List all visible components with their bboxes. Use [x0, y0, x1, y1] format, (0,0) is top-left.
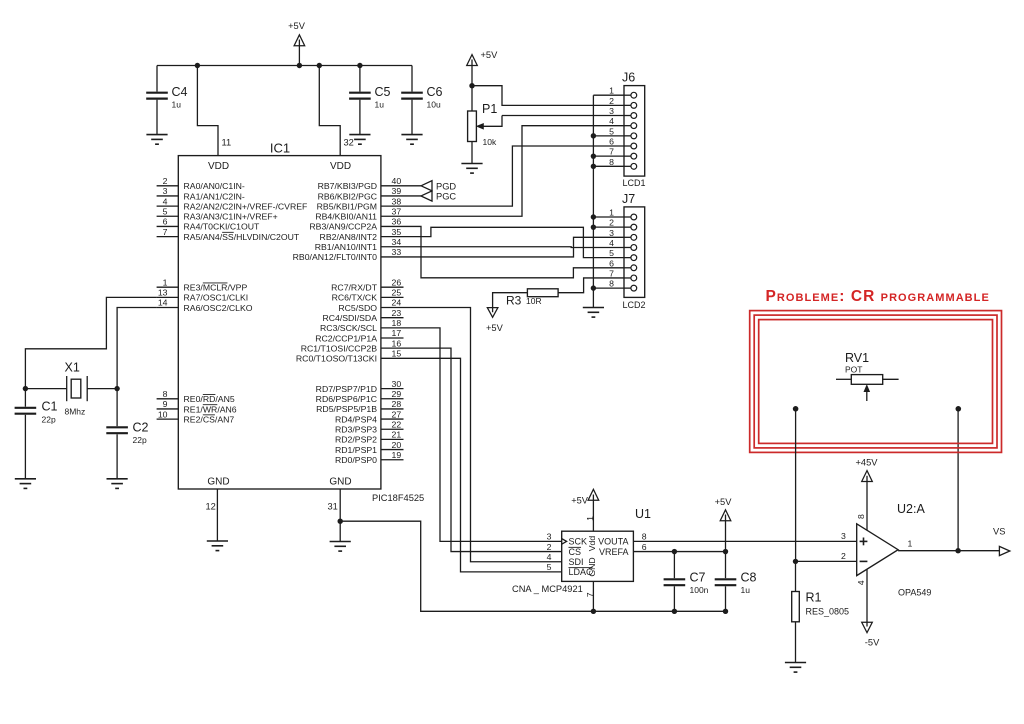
svg-text:2: 2 — [547, 542, 552, 552]
svg-text:VDD: VDD — [330, 161, 351, 172]
svg-text:RA3/AN3/C1IN+/VREF+: RA3/AN3/C1IN+/VREF+ — [184, 212, 278, 222]
svg-text:33: 33 — [392, 247, 402, 257]
svg-text:3: 3 — [547, 532, 552, 542]
svg-text:C1: C1 — [42, 400, 58, 414]
svg-text:PGC: PGC — [436, 192, 456, 202]
svg-text:16: 16 — [392, 338, 402, 348]
svg-text:22p: 22p — [133, 435, 147, 445]
wire U1 VOUTA to U2 plus input — [633, 540, 856, 542]
U2 negative supply pin 4 — [866, 569, 868, 626]
svg-text:U2:A: U2:A — [897, 502, 925, 516]
svg-text:5: 5 — [547, 562, 552, 572]
svg-text:Vdd: Vdd — [587, 536, 597, 552]
wire IC1 pin 12 GND — [216, 489, 218, 541]
IC1 pin 9 RE1/WR/AN6 stub — [157, 408, 179, 410]
power +5V flag above C8 — [720, 510, 731, 521]
svg-text:PIC18F4525: PIC18F4525 — [372, 493, 424, 503]
junction RV1 left wire — [793, 406, 799, 412]
svg-text:R3: R3 — [506, 294, 522, 308]
RV1 wiper arrow — [866, 390, 868, 401]
svg-text:RD5/PSP5/P1B: RD5/PSP5/P1B — [316, 404, 377, 414]
wire IC1 pin 18 RC3/SCK to U1 SCK — [404, 328, 562, 542]
svg-text:8: 8 — [609, 157, 614, 167]
wire IC1 pin 38 RB5 to J6 pin 6 — [404, 146, 625, 206]
junction IC1 pin31 — [338, 519, 343, 524]
svg-text:RE1/WR/AN6: RE1/WR/AN6 — [184, 404, 237, 414]
IC1 pin 35 RB2/AN8/INT2 stub — [381, 236, 404, 238]
IC1 pin 24 RC5/SDO stub — [381, 307, 404, 309]
P1 wiper arrow — [478, 116, 502, 127]
svg-text:RV1: RV1 — [845, 351, 869, 365]
wire IC1 pin 24 RC5/SDO to U1 SDI — [404, 308, 562, 562]
svg-text:RB6/KBI2/PGC: RB6/KBI2/PGC — [318, 191, 377, 201]
svg-text:RB7/KBI3/PGD: RB7/KBI3/PGD — [318, 181, 377, 191]
svg-text:4: 4 — [547, 552, 552, 562]
connector J7 pin 3 — [624, 236, 631, 238]
svg-text:1u: 1u — [172, 100, 182, 110]
IC1 pin 14 RA6/OSC2/CLKO stub — [157, 307, 179, 309]
IC1 pin 2 RA0/AN0/C1IN- stub — [157, 185, 179, 187]
svg-text:LCD1: LCD1 — [623, 178, 646, 188]
svg-text:2: 2 — [841, 551, 846, 561]
svg-text:40: 40 — [392, 176, 402, 186]
connector J6 pin 2 — [624, 104, 631, 106]
svg-text:8: 8 — [642, 532, 647, 542]
IC1 pin 30 RD7/PSP7/P1D stub — [381, 388, 404, 390]
IC1 pin 10 RE2/CS/AN7 stub — [157, 418, 179, 420]
svg-text:1: 1 — [908, 539, 913, 549]
junction VREFA C7 — [672, 549, 677, 554]
wire IC1 pin 36 RB3 to J7 pin 6 — [404, 226, 625, 277]
svg-text:11: 11 — [222, 138, 232, 148]
wire RV1 left to R1/minus junction — [795, 409, 797, 562]
svg-text:RA7/OSC1/CLKI: RA7/OSC1/CLKI — [184, 293, 249, 303]
svg-text:10u: 10u — [427, 100, 441, 110]
svg-text:RD1/PSP1: RD1/PSP1 — [335, 445, 377, 455]
svg-text:PGD: PGD — [436, 181, 456, 191]
connector J7 pin 2 — [624, 226, 631, 228]
junction crystal left — [23, 386, 28, 391]
svg-text:8: 8 — [609, 279, 614, 289]
ground under R1 — [785, 663, 806, 673]
junction U1 pin7 on ground rail — [591, 609, 596, 614]
svg-text:24: 24 — [392, 298, 402, 308]
wire R3 right to J7 pin 7 — [558, 278, 624, 293]
svg-text:RC5/SDO: RC5/SDO — [338, 303, 377, 313]
svg-text:14: 14 — [158, 298, 168, 308]
ground under IC1 pin 31 — [330, 542, 351, 552]
svg-text:+5V: +5V — [481, 50, 499, 60]
svg-text:2: 2 — [609, 96, 614, 106]
svg-text:RD2/PSP2: RD2/PSP2 — [335, 435, 377, 445]
power +5V top rail flag — [298, 40, 300, 66]
svg-text:RB2/AN8/INT2: RB2/AN8/INT2 — [320, 232, 378, 242]
IC1 pin 15 RC0/T1OSO/T13CKI stub — [381, 357, 404, 359]
U2 minus sign — [860, 560, 868, 562]
capacitor C8 — [725, 552, 727, 579]
IC1 pin 23 RC4/SDI/SDA stub — [381, 317, 404, 319]
svg-text:12: 12 — [206, 502, 216, 512]
svg-text:1: 1 — [609, 86, 614, 96]
U2 positive supply pin 8 — [866, 476, 868, 531]
svg-text:-5V: -5V — [865, 638, 880, 648]
junction bus J6 pin5 — [591, 133, 596, 138]
IC1 pin 33 RB0/AN12/FLT0/INT0 stub — [381, 256, 404, 258]
svg-text:C7: C7 — [690, 571, 706, 585]
IC1 pin 22 RD3/PSP3 stub — [381, 428, 404, 430]
junction bus J7 pin8 — [591, 285, 596, 290]
svg-text:10: 10 — [158, 409, 168, 419]
connector J7 pin 6 — [624, 267, 631, 269]
svg-text:C5: C5 — [375, 85, 391, 99]
svg-text:C4: C4 — [172, 85, 188, 99]
svg-text:7: 7 — [609, 147, 614, 157]
svg-text:34: 34 — [392, 237, 402, 247]
wire J7 pin8 to bus — [593, 287, 624, 289]
svg-text:29: 29 — [392, 389, 402, 399]
svg-text:36: 36 — [392, 217, 402, 227]
IC1 pin 7 RA5/AN4/SS/HLVDIN/C2OUT stub — [157, 236, 179, 238]
svg-text:18: 18 — [392, 318, 402, 328]
crystal X1 — [25, 388, 66, 390]
terminal flag PGD — [421, 181, 432, 191]
svg-text:2: 2 — [163, 176, 168, 186]
svg-text:7: 7 — [609, 268, 614, 278]
IC U1 MCP4921 body — [562, 531, 634, 581]
connector J6 body — [624, 86, 645, 177]
wire rail to IC1 pin 11 — [197, 66, 218, 156]
connector J7 pin 5 — [624, 257, 631, 259]
svg-text:RD0/PSP0: RD0/PSP0 — [335, 455, 377, 465]
svg-text:RD6/PSP6/P1C: RD6/PSP6/P1C — [316, 394, 377, 404]
svg-text:RB4/KBI0/AN11: RB4/KBI0/AN11 — [315, 212, 377, 222]
svg-text:RE0/RD/AN5: RE0/RD/AN5 — [184, 394, 235, 404]
IC1 pin 28 RD5/PSP5/P1B stub — [381, 408, 404, 410]
terminal flag VS — [999, 546, 1009, 555]
svg-text:19: 19 — [392, 450, 402, 460]
svg-text:3: 3 — [841, 531, 846, 541]
svg-text:4: 4 — [609, 238, 614, 248]
svg-text:1: 1 — [609, 208, 614, 218]
junction C7 on ground rail — [672, 609, 677, 614]
svg-text:27: 27 — [392, 409, 402, 419]
svg-text:C8: C8 — [741, 571, 757, 585]
junction output feedback — [955, 548, 960, 553]
svg-text:22p: 22p — [42, 415, 56, 425]
svg-text:C2: C2 — [133, 421, 149, 435]
connector J6 pin 3 — [624, 115, 631, 117]
svg-text:37: 37 — [392, 206, 402, 216]
IC1 pin 20 RD1/PSP1 stub — [381, 449, 404, 451]
power +5V flag above U1 — [588, 489, 599, 500]
junction top rail at +5V flag — [297, 63, 302, 68]
IC1 pin 38 RB5/KBI1/PGM stub — [381, 205, 404, 207]
wire J7 pin1 to bus — [593, 216, 624, 218]
svg-text:+5V: +5V — [288, 21, 306, 31]
svg-text:RC2/CCP1/P1A: RC2/CCP1/P1A — [315, 333, 377, 343]
svg-text:22: 22 — [392, 419, 402, 429]
svg-text:RD7/PSP7/P1D: RD7/PSP7/P1D — [316, 384, 377, 394]
potentiometer RV1 body — [851, 375, 882, 385]
svg-text:21: 21 — [392, 430, 402, 440]
ground under J7 bus — [583, 308, 604, 318]
connector J6 pin 7 — [624, 155, 631, 157]
svg-text:RC4/SDI/SDA: RC4/SDI/SDA — [322, 313, 377, 323]
connector J7 pin 1 — [624, 216, 631, 218]
wire IC1 pin 39 to PGC flag — [404, 195, 422, 197]
ground under P1 — [461, 164, 482, 174]
junction C8 on ground rail — [723, 609, 728, 614]
IC1 pin 18 RC3/SCK/SCL stub — [381, 327, 404, 329]
svg-text:7: 7 — [163, 227, 168, 237]
svg-text:GND: GND — [329, 477, 351, 488]
svg-text:4: 4 — [609, 116, 614, 126]
wire J7 pin2 to bus — [593, 226, 624, 228]
IC1 pin 17 RC2/CCP1/P1A stub — [381, 337, 404, 339]
connector J6 pin 1 — [624, 94, 631, 96]
svg-text:RA4/T0CKI/C1OUT: RA4/T0CKI/C1OUT — [184, 222, 260, 232]
capacitor C4 — [156, 66, 158, 92]
capacitor C2 — [116, 389, 118, 427]
svg-text:2: 2 — [609, 218, 614, 228]
connector J6 pin 6 — [624, 145, 631, 147]
svg-text:20: 20 — [392, 440, 402, 450]
wire P1 bottom to ground — [471, 142, 473, 164]
junction bus J7 pin2 — [591, 224, 596, 229]
svg-text:RC1/T1OSI/CCP2B: RC1/T1OSI/CCP2B — [301, 343, 377, 353]
svg-text:LCD2: LCD2 — [623, 300, 646, 310]
IC1 pin 16 RC1/T1OSI/CCP2B stub — [381, 347, 404, 349]
wire R1 junction to U2 minus input — [796, 560, 857, 562]
ground under C4 — [146, 135, 167, 145]
wire J6 pin8 to bus — [593, 165, 624, 167]
svg-text:RC7/RX/DT: RC7/RX/DT — [331, 283, 378, 293]
svg-text:P1: P1 — [482, 102, 497, 116]
svg-text:28: 28 — [392, 399, 402, 409]
svg-text:RB5/KBI1/PGM: RB5/KBI1/PGM — [317, 201, 377, 211]
IC1 pin 4 RA2/AN2/C2IN+/VREF-/CVREF stub — [157, 205, 179, 207]
wire rail to IC1 pin 32 — [319, 66, 340, 156]
wire IC1 pin 37 RB4 to J6 pin 4 — [404, 126, 625, 217]
svg-text:VDD: VDD — [208, 161, 229, 172]
svg-text:15: 15 — [392, 349, 402, 359]
junction top rail at C5 — [357, 63, 362, 68]
ground under C1 — [15, 479, 36, 489]
svg-text:RES_0805: RES_0805 — [806, 607, 850, 617]
wire U2 output — [898, 550, 1000, 552]
wire ground bus J6/J7 — [593, 94, 624, 96]
wire R3 left to +5V flag — [493, 293, 528, 313]
svg-text:RB3/AN9/CCP2A: RB3/AN9/CCP2A — [309, 222, 377, 232]
svg-text:23: 23 — [392, 308, 402, 318]
svg-text:RC6/TX/CK: RC6/TX/CK — [332, 293, 378, 303]
svg-text:31: 31 — [328, 502, 338, 512]
svg-text:32: 32 — [344, 138, 354, 148]
IC1 pin 3 RA1/AN1/C2IN- stub — [157, 195, 179, 197]
IC1 pin 1 RE3/MCLR/VPP stub — [157, 286, 179, 288]
svg-text:25: 25 — [392, 288, 402, 298]
svg-text:1: 1 — [163, 277, 168, 287]
svg-text:10R: 10R — [526, 296, 542, 306]
svg-text:VOUTA: VOUTA — [598, 537, 628, 547]
wire P1 top to J6 pin 2 — [472, 86, 624, 106]
svg-text:1u: 1u — [741, 585, 751, 595]
power +45V flag — [862, 471, 873, 482]
svg-text:6: 6 — [609, 137, 614, 147]
svg-text:RE2/CS/AN7: RE2/CS/AN7 — [184, 414, 235, 424]
IC1 pin 37 RB4/KBI0/AN11 stub — [381, 215, 404, 217]
junction VREFA +5V/C8 — [723, 549, 728, 554]
svg-text:3: 3 — [609, 228, 614, 238]
capacitor C1 — [24, 389, 26, 407]
ground under IC1 pin 12 — [207, 541, 228, 551]
wire output to RV1 box right dot — [957, 409, 959, 551]
svg-text:30: 30 — [392, 379, 402, 389]
svg-text:+45V: +45V — [856, 458, 879, 468]
svg-text:C6: C6 — [427, 85, 443, 99]
svg-text:RA5/AN4/SS/HLVDIN/C2OUT: RA5/AN4/SS/HLVDIN/C2OUT — [184, 232, 300, 242]
svg-text:CNA _ MCP4921: CNA _ MCP4921 — [512, 584, 583, 594]
wire IC1 pin 13 OSC1 to crystal left — [25, 297, 156, 388]
junction RV1 right wire — [956, 406, 962, 412]
wire U1 GND pin7 to rail — [592, 581, 594, 611]
svg-text:RA0/AN0/C1IN-: RA0/AN0/C1IN- — [184, 181, 245, 191]
connector J7 pin 4 — [624, 246, 631, 248]
svg-text:13: 13 — [158, 288, 168, 298]
wire J6 pin7 to bus — [593, 155, 624, 157]
svg-text:5: 5 — [609, 126, 614, 136]
connector J7 pin 8 — [624, 287, 631, 289]
svg-text:CS: CS — [569, 547, 582, 557]
junction crystal right — [114, 386, 119, 391]
svg-text:U1: U1 — [635, 507, 651, 521]
svg-text:J6: J6 — [622, 71, 635, 85]
svg-text:GND: GND — [587, 557, 597, 576]
svg-text:17: 17 — [392, 328, 402, 338]
op-amp U2:A triangle — [857, 524, 898, 576]
ground under C2 — [107, 479, 128, 489]
connector J7 body — [624, 207, 645, 298]
svg-text:RD3/PSP3: RD3/PSP3 — [335, 425, 377, 435]
connector J6 pin 4 — [624, 125, 631, 127]
IC1 pin 39 RB6/KBI2/PGC stub — [381, 195, 404, 197]
svg-text:4: 4 — [163, 196, 168, 206]
IC1 pin 34 RB1/AN10/INT1 stub — [381, 246, 404, 248]
svg-text:8: 8 — [163, 389, 168, 399]
terminal flag PGC — [421, 191, 432, 201]
junction bus J6 pin8 — [591, 164, 596, 169]
svg-text:SDI: SDI — [569, 557, 584, 567]
svg-text:100n: 100n — [690, 585, 709, 595]
svg-text:RB0/AN12/FLT0/INT0: RB0/AN12/FLT0/INT0 — [293, 252, 377, 262]
IC1 pin 27 RD4/PSP4 stub — [381, 418, 404, 420]
power -5V down flag — [862, 622, 873, 632]
junction P1 top branch — [469, 83, 474, 88]
wire IC1 pin 16 RC1 to U1 CS — [404, 348, 562, 551]
capacitor C5 — [359, 66, 361, 92]
IC1 pin 40 RB7/KBI3/PGD stub — [381, 185, 404, 187]
resistor R1 body — [795, 561, 797, 591]
svg-text:IC1: IC1 — [270, 141, 290, 156]
svg-text:VS: VS — [993, 527, 1005, 537]
svg-text:POT: POT — [845, 365, 862, 375]
wire ground rail to DAC area — [340, 521, 725, 611]
wire IC1 pin 31 GND — [339, 489, 341, 542]
svg-text:RB1/AN10/INT1: RB1/AN10/INT1 — [315, 242, 377, 252]
connector J6 pin 8 — [624, 165, 631, 167]
svg-text:5: 5 — [609, 248, 614, 258]
IC1 pin 25 RC6/TX/CK stub — [381, 296, 404, 298]
svg-text:+5V: +5V — [571, 496, 589, 506]
resistor R3 body — [527, 289, 558, 297]
svg-text:26: 26 — [392, 277, 402, 287]
IC1 pin 19 RD0/PSP0 stub — [381, 459, 404, 461]
svg-text:GND: GND — [207, 477, 229, 488]
svg-text:RA6/OSC2/CLKO: RA6/OSC2/CLKO — [184, 303, 253, 313]
IC1 pin 36 RB3/AN9/CCP2A stub — [381, 225, 404, 227]
svg-text:8: 8 — [856, 514, 866, 519]
wire top +5V rail — [157, 65, 412, 67]
svg-text:VREFA: VREFA — [599, 547, 629, 557]
wire IC1 pin 34 RB1 to J7 pin 4 — [404, 246, 625, 249]
U2 plus sign — [860, 538, 868, 546]
svg-text:R1: R1 — [806, 591, 822, 605]
power +5V down flag at R3 — [487, 308, 498, 318]
U1 clock mark SCK — [562, 539, 567, 545]
junction bus J6 pin7 — [591, 153, 596, 158]
capacitor C6 — [411, 66, 413, 92]
potentiometer P1 body — [468, 111, 477, 142]
wire IC1 pin 33 RB0 to J7 pin 3 — [404, 237, 625, 257]
wire IC1 pin 15 RC0 to U1 LDAC — [404, 358, 562, 572]
svg-text:1u: 1u — [375, 100, 385, 110]
svg-text:6: 6 — [642, 542, 647, 552]
svg-text:RC3/SCK/SCL: RC3/SCK/SCL — [320, 323, 377, 333]
wire IC1 pin 40 to PGD flag — [404, 185, 422, 187]
IC1 pin 13 RA7/OSC1/CLKI stub — [157, 296, 179, 298]
svg-text:RA1/AN1/C2IN-: RA1/AN1/C2IN- — [184, 191, 245, 201]
IC IC1 PIC18F4525 body — [178, 156, 381, 489]
svg-text:Probleme: CR programmable: Probleme: CR programmable — [766, 288, 990, 305]
IC1 pin 6 RA4/T0CKI/C1OUT stub — [157, 225, 179, 227]
svg-text:RE3/MCLR/VPP: RE3/MCLR/VPP — [184, 283, 248, 293]
svg-text:RD4/PSP4: RD4/PSP4 — [335, 414, 377, 424]
svg-text:3: 3 — [163, 186, 168, 196]
svg-text:3: 3 — [609, 106, 614, 116]
ground under C5 — [349, 135, 370, 145]
svg-text:9: 9 — [163, 399, 168, 409]
capacitor C7 — [673, 552, 675, 579]
connector J7 pin 7 — [624, 277, 631, 279]
svg-text:38: 38 — [392, 196, 402, 206]
svg-text:X1: X1 — [65, 361, 80, 375]
connector J6 pin 5 — [624, 135, 631, 137]
svg-text:J7: J7 — [622, 192, 635, 206]
IC1 pin 29 RD6/PSP6/P1C stub — [381, 398, 404, 400]
svg-text:RC0/T1OSO/T13CKI: RC0/T1OSO/T13CKI — [296, 354, 377, 364]
svg-text:35: 35 — [392, 227, 402, 237]
annotation red box (triple border) — [750, 311, 1002, 453]
junction R1 / minus input — [793, 559, 798, 564]
IC1 pin 26 RC7/RX/DT stub — [381, 286, 404, 288]
junction top rail at pin32 branch — [317, 63, 322, 68]
wire IC1 pin 35 RB2 to J7 pin 5 — [404, 227, 625, 257]
svg-text:4: 4 — [856, 580, 866, 585]
wire P1 wiper to J6 pin 3 — [502, 115, 624, 117]
IC1 pin 21 RD2/PSP2 stub — [381, 438, 404, 440]
svg-text:+5V: +5V — [486, 323, 504, 333]
wire IC1 pin 14 OSC2 to crystal right — [117, 308, 157, 389]
